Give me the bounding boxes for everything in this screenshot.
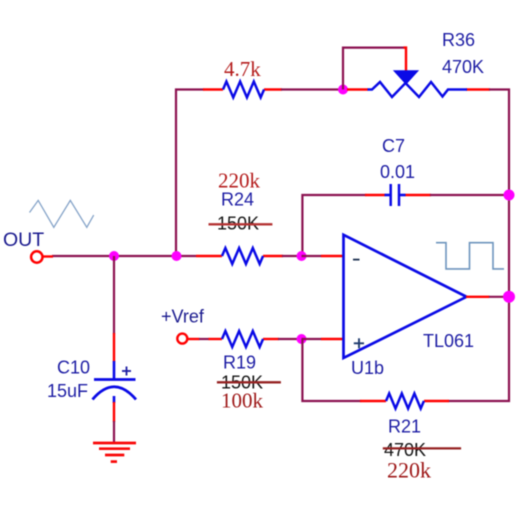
label R21 (388, 417, 421, 437)
svg-text:220k: 220k (387, 458, 431, 483)
node C7/rail junction (504, 190, 515, 201)
wire C10 branch (113, 256, 115, 362)
svg-text:C10: C10 (57, 358, 90, 378)
svg-text:R24: R24 (221, 190, 254, 210)
value label 4.7k (224, 57, 261, 81)
resistor 4.7k (top feedback) (203, 82, 282, 98)
pin plus input (302, 338, 344, 340)
label R36 (442, 30, 475, 50)
svg-text:U1b: U1b (351, 358, 384, 378)
value 150K struck (209, 214, 273, 234)
svg-text:470K: 470K (442, 57, 484, 77)
svg-text:OUT: OUT (3, 229, 44, 251)
port OUT (31, 251, 53, 262)
label C7 (382, 136, 405, 156)
svg-text:+Vref: +Vref (161, 307, 205, 327)
node OUT/C10 junction (109, 251, 119, 261)
label TL061 (423, 331, 474, 351)
pin output (466, 296, 490, 298)
node OUT/feedback junction (172, 251, 182, 261)
wire OUT row (52, 255, 196, 257)
op-amp U1b (344, 235, 467, 358)
value 0.01 (380, 162, 415, 182)
square wave icon (436, 243, 504, 269)
label OUT (3, 229, 44, 251)
wire Vref to R19 (199, 338, 209, 340)
wire C7 right to rail (430, 194, 509, 196)
value 150K struck R19 (217, 373, 281, 393)
svg-text:100k: 100k (221, 389, 264, 413)
potentiometer R36 (347, 71, 490, 97)
node plus input junction (297, 334, 307, 344)
node minus input junction (297, 251, 307, 261)
wire wiper loop (343, 48, 406, 90)
triangle wave icon (30, 200, 94, 227)
wire C10 to ground (113, 402, 115, 443)
wire output to rail (489, 296, 509, 298)
capacitor C10 (93, 361, 137, 403)
wire R24 to minus node (282, 255, 302, 257)
svg-text:C7: C7 (382, 136, 405, 156)
value 100k new (221, 389, 264, 413)
capacitor C7 (365, 184, 431, 206)
svg-text:R36: R36 (442, 30, 475, 50)
svg-text:R21: R21 (388, 417, 421, 437)
wire from OUT node up to top row (176, 90, 204, 257)
svg-text:0.01: 0.01 (380, 162, 415, 182)
port Vref (177, 334, 199, 344)
node junction top (338, 85, 348, 95)
wire right rail mid (508, 195, 510, 297)
value 220k new R21 (387, 458, 431, 483)
resistor R21 (360, 394, 449, 409)
ground (93, 443, 136, 462)
svg-text:TL061: TL061 (423, 331, 474, 351)
value 470K struck R21 (383, 440, 461, 460)
label C10 (57, 358, 90, 378)
svg-text:4.7k: 4.7k (224, 57, 261, 81)
svg-text:R19: R19 (223, 353, 256, 373)
value 220k new (218, 169, 261, 193)
svg-text:15uF: 15uF (47, 381, 88, 401)
label +Vref (161, 307, 205, 327)
resistor R19 (209, 331, 280, 347)
wire C7 left branch (302, 195, 366, 256)
label R19 (223, 353, 256, 373)
wire top row to junction (281, 88, 343, 90)
resistor R24 (196, 248, 283, 264)
value 470K (442, 57, 484, 77)
wire right rail top (489, 90, 509, 196)
wire feedback down from plus node (302, 339, 361, 401)
wire right rail bottom (448, 297, 509, 401)
label U1b (351, 358, 384, 378)
pin minus input (302, 255, 344, 257)
node output junction (503, 291, 515, 303)
label R24 (221, 190, 254, 210)
value 15uF (47, 381, 88, 401)
wire R19 to plus node (278, 338, 302, 340)
